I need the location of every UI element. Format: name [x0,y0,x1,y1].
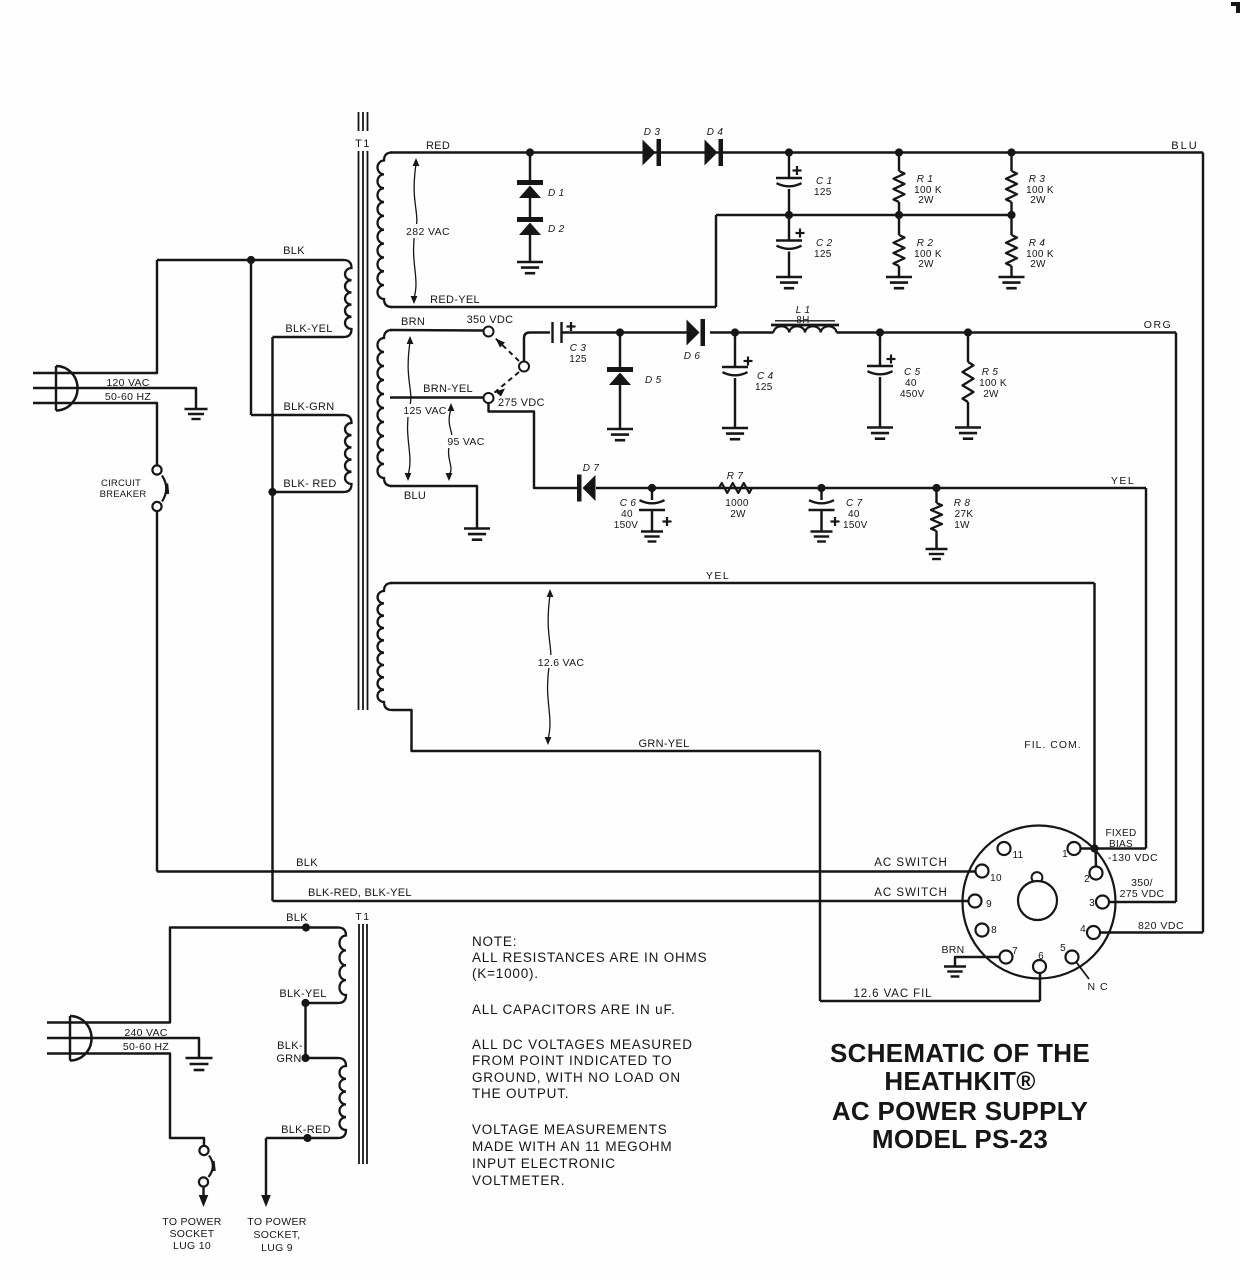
capacitor C1 [776,178,802,186]
label C3 plus [567,322,576,331]
label C5 plus [887,355,896,364]
wire BLK to BLK-GRN vertical [250,260,252,415]
svg-text:AC POWER SUPPLY: AC POWER SUPPLY [832,1096,1088,1126]
label C6 value 150V [614,520,639,531]
resistor R1 [894,171,905,202]
svg-text:450V: 450V [900,389,925,400]
ground below R4 [999,277,1025,288]
label YEL (filament) [706,570,730,582]
node RED at R3 [1007,148,1015,156]
label C6 [620,498,637,509]
wire BLU right-edge vertical [1202,153,1204,933]
circuit breaker [152,465,167,511]
label R3 wattage [1030,195,1046,206]
wire 275VDC tap to D7 rail [489,403,579,488]
wire C4 lead [734,333,736,368]
inductor L1 (choke) [771,321,839,333]
measure arrow 12.6 VAC [545,589,554,745]
label BRN (pin7) [941,944,964,956]
svg-text:T1: T1 [355,911,370,923]
node mid rail at R3/R4 [1007,211,1015,219]
title block [830,1038,1090,1154]
label C5 value 450V [900,389,925,400]
switch pivot [519,362,529,372]
wire GRN-YEL down [819,751,821,1001]
ground at 240V plug [186,1058,213,1070]
label C1 value 125 [814,187,832,198]
svg-text:50-60 HZ: 50-60 HZ [123,1041,169,1053]
240V plug prong gnd [47,1038,199,1058]
240V plug prong hot [47,928,338,1023]
svg-text:FIXED: FIXED [1106,828,1137,839]
svg-text:8: 8 [991,925,997,936]
capacitor C3 [553,322,562,343]
plug prong neutral [33,403,157,466]
label C4 plus [744,357,753,366]
svg-text:3: 3 [1089,898,1095,909]
wire C1 top lead [788,153,790,179]
ground below D2 [517,262,543,273]
label R4 wattage [1030,259,1046,270]
transformer T1 label [355,138,371,150]
svg-text:YEL: YEL [706,570,730,582]
svg-text:C 5: C 5 [904,367,921,378]
label 820 VDC [1138,920,1184,932]
svg-text:8H: 8H [796,315,809,326]
socket pin 6 [1033,960,1046,973]
svg-text:125: 125 [755,382,773,393]
label R4 value [1026,249,1054,260]
svg-text:VOLTMETER.: VOLTMETER. [472,1173,565,1188]
label C3 [570,343,587,354]
svg-text:4: 4 [1080,924,1086,935]
label BLK-RED [283,478,336,490]
label 12.6 VAC FIL [854,988,933,1000]
label C4 value 125 [755,382,773,393]
diode D4 [705,139,724,166]
label C2 value 125 [814,249,832,260]
socket pin 3 [1096,896,1109,909]
wire RED rail [390,151,1203,153]
arrow to lug 9 [261,1195,271,1207]
wire D6 to L1 [710,331,774,333]
label BLK-RED, BLK-YEL [308,887,412,899]
ground below C7 [811,532,833,542]
svg-text:(K=1000).: (K=1000). [472,966,539,981]
label C6 plus [663,517,672,526]
label BLK-YEL (240V) [279,988,326,1000]
capacitor C2 [776,241,802,249]
svg-text:N C: N C [1087,981,1108,993]
svg-text:D 6: D 6 [684,351,701,362]
node RED at R1 [895,148,903,156]
wire BLK [157,259,344,261]
label BLK-GRN [284,401,335,413]
wire pivot to C3 [524,333,550,362]
label R1 wattage [918,195,934,206]
node on RED at D1 branch [526,148,534,156]
label R3 [1029,174,1046,185]
capacitor C7 [809,500,835,510]
label NC [1087,981,1108,993]
label BLK (240V) [286,912,308,924]
wire ORG right-edge vertical [1175,333,1177,903]
wire D5 lead [619,333,621,369]
label TO POWER SOCKET LUG 10 [162,1216,221,1252]
svg-text:12.6 VAC FIL: 12.6 VAC FIL [854,988,933,1000]
socket pin 10 [976,865,989,878]
node at D5 branch [616,328,624,336]
label R1 value [914,185,942,196]
T1 primary winding BLK to BLK-YEL [344,260,352,337]
resistor R4 [1006,235,1017,266]
label D3 [644,127,661,138]
transformer T1 core [359,112,368,710]
label R1 [917,174,933,185]
node BLK-YEL 240V [301,999,309,1007]
svg-text:RED-YEL: RED-YEL [430,294,480,306]
capacitor C5 [867,366,893,374]
240V primary winding BLK to BLK-YEL [338,928,346,1004]
svg-text:C 3: C 3 [570,343,587,354]
svg-text:GRN-YEL: GRN-YEL [639,738,690,750]
svg-text:R 8: R 8 [954,498,971,509]
socket pin 6 label [1038,951,1044,962]
wire R5 ground lead [967,402,969,428]
wire filament winding bottom jog [392,710,820,751]
socket pin 8 label [991,925,997,936]
svg-text:2W: 2W [918,259,934,270]
wire C5 ground lead [879,377,881,428]
label FIL. COM. [1024,739,1081,751]
240V transformer core [359,924,367,1164]
svg-text:9: 9 [986,899,992,910]
svg-text:AC SWITCH: AC SWITCH [874,887,948,899]
label RED-YEL [430,294,480,306]
label C7 plus [831,517,840,526]
label R5 value [979,378,1007,389]
svg-text:2W: 2W [1030,195,1046,206]
wire R3 bottom lead [1010,202,1012,215]
svg-text:BLK-YEL: BLK-YEL [279,988,326,1000]
resistor R5 [963,362,974,402]
svg-text:125: 125 [569,354,587,365]
wire BLK bus to AC switch [157,870,976,872]
socket pin 2 label [1084,874,1090,885]
wire ORG rail [837,331,1177,333]
label 350VDC [467,314,514,326]
wire R3 top lead [1010,153,1012,172]
socket pin 1 [1068,842,1081,855]
label D7 [583,463,600,474]
svg-text:GRN: GRN [276,1053,301,1065]
svg-text:CIRCUIT: CIRCUIT [101,478,141,489]
label BLK-RED (240V) [281,1124,331,1136]
label BLK-GRN (240V) [276,1040,303,1065]
node BLK-GRN 240V [301,1054,309,1062]
node BLK junction [247,256,255,264]
svg-text:BRN: BRN [941,944,964,956]
wire YEL filament rail [390,582,1095,584]
socket pin 4 label [1080,924,1086,935]
wire C6 ground lead [651,510,653,532]
wire R4 top lead [1010,215,1012,235]
switch wiper dashed to 350VDC [494,337,519,361]
ground at 120V plug [185,409,208,419]
wire R2 top lead [898,215,900,235]
wire RED-YEL riser [715,215,717,307]
wire R8 ground lead [935,531,937,549]
label BLK (primary) [283,245,305,257]
svg-text:6: 6 [1038,951,1044,962]
svg-text:12.6 VAC: 12.6 VAC [538,657,585,669]
node at R5 branch [964,328,972,336]
svg-text:SOCKET: SOCKET [170,1228,215,1240]
wire pin1 to bias rails [1081,847,1147,849]
svg-text:FROM POINT INDICATED TO: FROM POINT INDICATED TO [472,1053,672,1068]
socket pin 11 [998,842,1011,855]
T1 secondary winding 125VAC (BRN to BLU, tap BRN-YEL) [378,330,392,486]
node at R8 [932,484,940,492]
label AC SWITCH (pin9) [874,887,948,899]
diode D6 [687,319,706,346]
svg-text:R 2: R 2 [917,238,934,249]
svg-text:LUG 9: LUG 9 [261,1242,293,1254]
label R3 value [1026,185,1054,196]
svg-text:-130 VDC: -130 VDC [1108,852,1158,864]
diode D2 [517,217,543,235]
ground below C6 [641,532,663,542]
ground below R8 [926,549,948,559]
wire pin6 lead [1039,972,1041,1001]
socket center keyway [1018,872,1057,920]
svg-text:D 2: D 2 [548,224,565,235]
wire C3 to D6 [562,331,687,333]
diode D3 [643,139,662,166]
label 50-60 HZ (240V) [123,1041,169,1053]
label 120 VAC [106,377,149,389]
svg-text:BRN-YEL: BRN-YEL [423,383,473,395]
svg-text:40: 40 [905,378,917,389]
svg-text:R 3: R 3 [1029,174,1046,185]
wire R8 top lead [935,488,937,503]
label 12.6 VAC [534,655,586,669]
socket pin 2 [1090,867,1103,880]
svg-text:FIL. COM.: FIL. COM. [1024,739,1081,751]
wire C1 bottom lead [788,189,790,215]
240V transformer label T1 [355,911,370,923]
svg-text:BRN: BRN [401,316,425,328]
240V switch [199,1146,214,1187]
resistor R3 [1006,171,1017,202]
node pin1/FIL COM junction [1090,844,1098,852]
label R8 wattage 1W [954,520,970,531]
label R8 [954,498,971,509]
socket pin 9 [969,895,982,908]
svg-text:275 VDC: 275 VDC [1120,888,1165,900]
svg-text:D 5: D 5 [645,375,662,386]
notes text block [472,934,707,1188]
label 275VDC [498,397,545,409]
label 95 VAC [441,435,487,448]
label R2 wattage [918,259,934,270]
svg-text:TO POWER: TO POWER [162,1216,221,1228]
wire BLK-YEL to BLK-RED vertical [271,337,273,901]
label YEL (bias rail) [1111,475,1135,487]
wire C6 lead [651,488,653,500]
label RED [426,140,450,152]
wire pin3 to ORG [1109,901,1176,903]
node at C4 branch [731,328,739,336]
svg-text:125: 125 [814,187,832,198]
wire R2 ground lead [898,266,900,277]
wire BLK-RED 240V [266,1137,338,1139]
svg-text:2W: 2W [1030,259,1046,270]
label TO POWER SOCKET LUG 9 [247,1216,306,1254]
svg-text:D 4: D 4 [707,127,724,138]
label C7 value 150V [843,520,868,531]
wire BLK-RED [273,491,344,493]
switch wiper dashed to 275VDC [494,372,519,397]
label D6 [684,351,701,362]
svg-text:HEATHKIT®: HEATHKIT® [884,1066,1035,1096]
label BLU (winding) [404,490,426,502]
svg-text:T1: T1 [355,138,371,150]
svg-text:95 VAC: 95 VAC [447,436,484,448]
svg-text:1000: 1000 [725,498,749,509]
T1 primary winding BLK-GRN to BLK-RED [344,415,352,492]
diode D1 [517,180,543,198]
ground below R5 [955,428,981,439]
svg-text:C 6: C 6 [620,498,637,509]
svg-text:BLU: BLU [404,490,426,502]
ground below R2 [886,277,912,288]
label D2 [548,224,565,235]
svg-text:BLK: BLK [286,912,308,924]
wire BRN-YEL [390,396,484,398]
label 350/275VDC [1120,877,1165,900]
svg-text:MODEL PS-23: MODEL PS-23 [872,1124,1048,1154]
svg-text:D 3: D 3 [644,127,661,138]
node at C7 [817,484,825,492]
wire BLK-GRN [251,414,344,416]
label 240 VAC [124,1027,167,1039]
svg-text:R 4: R 4 [1029,238,1046,249]
label C7 [846,498,863,509]
label R7 wattage 2W [730,509,746,520]
svg-text:VOLTAGE MEASUREMENTS: VOLTAGE MEASUREMENTS [472,1122,668,1137]
svg-text:350 VDC: 350 VDC [467,314,514,326]
svg-text:150V: 150V [614,520,639,531]
wire BLK-GRN 240V [306,1057,339,1059]
svg-text:D 7: D 7 [583,463,600,474]
label BRN [401,316,425,328]
svg-text:BLU: BLU [1171,140,1198,152]
svg-text:BLK: BLK [296,857,318,869]
label C2 plus [796,229,805,238]
label BRN-YEL [423,383,473,395]
label L1 value 8H [796,315,809,326]
wire FIL COM vertical [1093,583,1095,849]
wire 12.6 VAC FIL line [820,1000,1040,1002]
svg-text:120 VAC: 120 VAC [106,377,149,389]
label -130 VDC [1108,852,1158,864]
svg-text:27K: 27K [955,509,974,520]
svg-text:R 7: R 7 [727,471,744,482]
240V plug prong neutral [47,1054,204,1147]
label R8 value 27K [955,509,974,520]
svg-text:2W: 2W [918,195,934,206]
svg-text:50-60 HZ: 50-60 HZ [105,391,151,403]
resistor R7 [719,483,752,493]
wire C5 lead [879,333,881,367]
wire R5 top lead [967,333,969,363]
svg-text:THE OUTPUT.: THE OUTPUT. [472,1086,569,1101]
label ORG [1144,319,1172,331]
node BLK-RED junction [268,488,276,496]
ground below C5 [867,428,893,439]
svg-text:BREAKER: BREAKER [100,489,147,500]
label L1 [796,305,811,316]
node mid rail at R1/R2 [895,211,903,219]
svg-text:TO POWER: TO POWER [247,1216,306,1228]
label 125 VAC [401,404,447,417]
wire R4 ground lead [1010,266,1012,277]
svg-text:150V: 150V [843,520,868,531]
svg-text:1W: 1W [954,520,970,531]
svg-text:40: 40 [621,509,633,520]
svg-text:240 VAC: 240 VAC [124,1027,167,1039]
wire C2 ground lead [788,252,790,278]
wire BLK-RED to lug9 arrow [265,1138,267,1197]
svg-text:ALL RESISTANCES ARE IN OHMS: ALL RESISTANCES ARE IN OHMS [472,950,707,965]
wire R1 top lead [898,153,900,172]
switch terminal 350VDC [484,327,494,337]
svg-text:YEL: YEL [1111,475,1135,487]
socket pin 5 label [1060,943,1066,954]
label C3 value 125 [569,354,587,365]
svg-text:BLK-YEL: BLK-YEL [285,323,332,335]
AC plug 240V [70,1016,92,1061]
plug prong gnd [33,388,196,409]
label C7 value 40 [848,509,860,520]
svg-text:ALL DC VOLTAGES MEASURED: ALL DC VOLTAGES MEASURED [472,1037,693,1052]
svg-text:NOTE:: NOTE: [472,934,517,949]
resistor R2 [894,235,905,266]
label R2 value [914,249,942,260]
socket pin 9 label [986,899,992,910]
label R7 value 1000 [725,498,749,509]
node at C6 [648,484,656,492]
svg-text:C 7: C 7 [846,498,863,509]
label AC SWITCH (pin10) [874,857,948,869]
svg-text:2W: 2W [730,509,746,520]
wire pin4 to BLU [1100,931,1203,933]
line pin5 NC [1077,963,1090,980]
socket pin 8 [976,924,989,937]
svg-text:MADE WITH AN 11 MEGOHM: MADE WITH AN 11 MEGOHM [472,1139,672,1154]
240V primary winding BLK-GRN to BLK-RED [338,1058,346,1138]
socket pin 5 [1066,951,1079,964]
label R5 [982,367,999,378]
label BLK-YEL [285,323,332,335]
label D4 [707,127,724,138]
wire C7 lead [820,488,822,500]
switch terminal 275VDC [484,393,494,403]
capacitor C4 [722,367,748,375]
svg-text:275 VDC: 275 VDC [498,397,545,409]
svg-text:RED: RED [426,140,450,152]
